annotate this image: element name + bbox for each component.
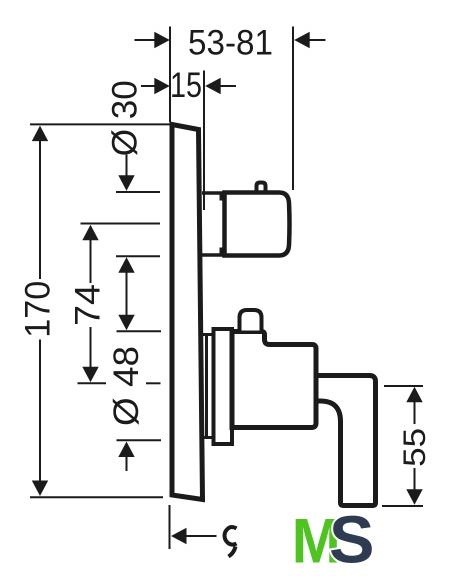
extension line 74 bottom left bbox=[78, 382, 107, 384]
extension line 55 top bbox=[384, 385, 423, 387]
dim stub d48 bottom bbox=[126, 456, 128, 471]
svg-text:15: 15 bbox=[170, 65, 202, 105]
thermostat neck bottom line bbox=[202, 253, 223, 257]
arrow 53-81 left bbox=[154, 32, 170, 48]
ref line d48 bottom bbox=[117, 439, 162, 441]
sleeve line bbox=[205, 335, 208, 437]
arrow 170 up bbox=[32, 126, 48, 142]
arrow d30 up bbox=[118, 257, 134, 273]
extension line bottom dim bbox=[169, 505, 171, 549]
svg-text:170: 170 bbox=[18, 281, 57, 338]
dim line 170 upper bbox=[39, 140, 41, 279]
volume flange bbox=[214, 329, 233, 444]
svg-text:Ø 48: Ø 48 bbox=[107, 346, 146, 426]
dim line 15 right bbox=[219, 85, 236, 87]
arrow 74 down bbox=[82, 367, 98, 383]
svg-text:53-81: 53-81 bbox=[188, 23, 273, 63]
ref line d30 bottom bbox=[116, 255, 160, 257]
arrow 55 up bbox=[406, 387, 422, 403]
arrow 53-81 right bbox=[294, 32, 310, 48]
ref line d30 top bbox=[116, 191, 160, 193]
svg-text:Ø 30: Ø 30 bbox=[106, 80, 145, 156]
dim line 170 lower bbox=[39, 340, 41, 482]
volume knob body bbox=[232, 332, 316, 428]
arrow 55 down bbox=[406, 489, 422, 505]
dim line 55 upper bbox=[414, 401, 416, 424]
dome button bbox=[240, 310, 262, 331]
extension line 55 bottom bbox=[382, 505, 423, 507]
extension line 170 top bbox=[30, 123, 171, 125]
extension line 53-81 right bbox=[292, 27, 294, 191]
thermostat neck top line bbox=[202, 191, 223, 195]
arrow d30 down bbox=[118, 175, 134, 191]
thermostat tab bbox=[257, 183, 266, 191]
dim line 55 lower bbox=[414, 468, 416, 490]
dim line 15 left bbox=[141, 85, 157, 87]
partial digit 9 of bottom dim bbox=[225, 527, 237, 545]
arrow d48 up bbox=[118, 442, 134, 458]
extension line 170 bottom bbox=[30, 496, 163, 498]
dim line 53-81 right bbox=[308, 39, 326, 41]
thermostat knob body bbox=[225, 193, 290, 256]
extension line 53-81 left bbox=[169, 27, 171, 123]
wall plate bbox=[172, 125, 203, 500]
extension line 74 top bbox=[81, 223, 161, 225]
svg-text:55: 55 bbox=[396, 428, 432, 467]
extension line 15 right bbox=[203, 71, 205, 211]
svg-text:S: S bbox=[329, 503, 375, 576]
dim line 74 lower bbox=[90, 327, 92, 368]
sleeve bottom tick bbox=[203, 436, 214, 439]
arrow 15 left bbox=[154, 78, 170, 94]
skirt lip top bbox=[220, 194, 223, 201]
extension line 74 bottom right bbox=[146, 382, 161, 384]
svg-text:74: 74 bbox=[68, 284, 107, 326]
sleeve top tick bbox=[203, 333, 214, 336]
dim line 53-81 left bbox=[135, 39, 158, 41]
arrow 74 up bbox=[82, 225, 98, 241]
ref line d48 top bbox=[117, 330, 162, 332]
lever handle bbox=[319, 376, 376, 506]
arrow bottom left bbox=[171, 528, 187, 544]
arrow 170 down bbox=[32, 481, 48, 497]
arrow 15 right bbox=[205, 78, 221, 94]
skirt lip bottom bbox=[220, 248, 223, 255]
dim stub d30/d48 shared bbox=[126, 271, 128, 316]
dim line bottom bbox=[186, 535, 217, 537]
dim stub d30 top bbox=[126, 155, 128, 178]
dim line 74 upper bbox=[90, 239, 92, 283]
arrow d48 down bbox=[118, 315, 134, 331]
